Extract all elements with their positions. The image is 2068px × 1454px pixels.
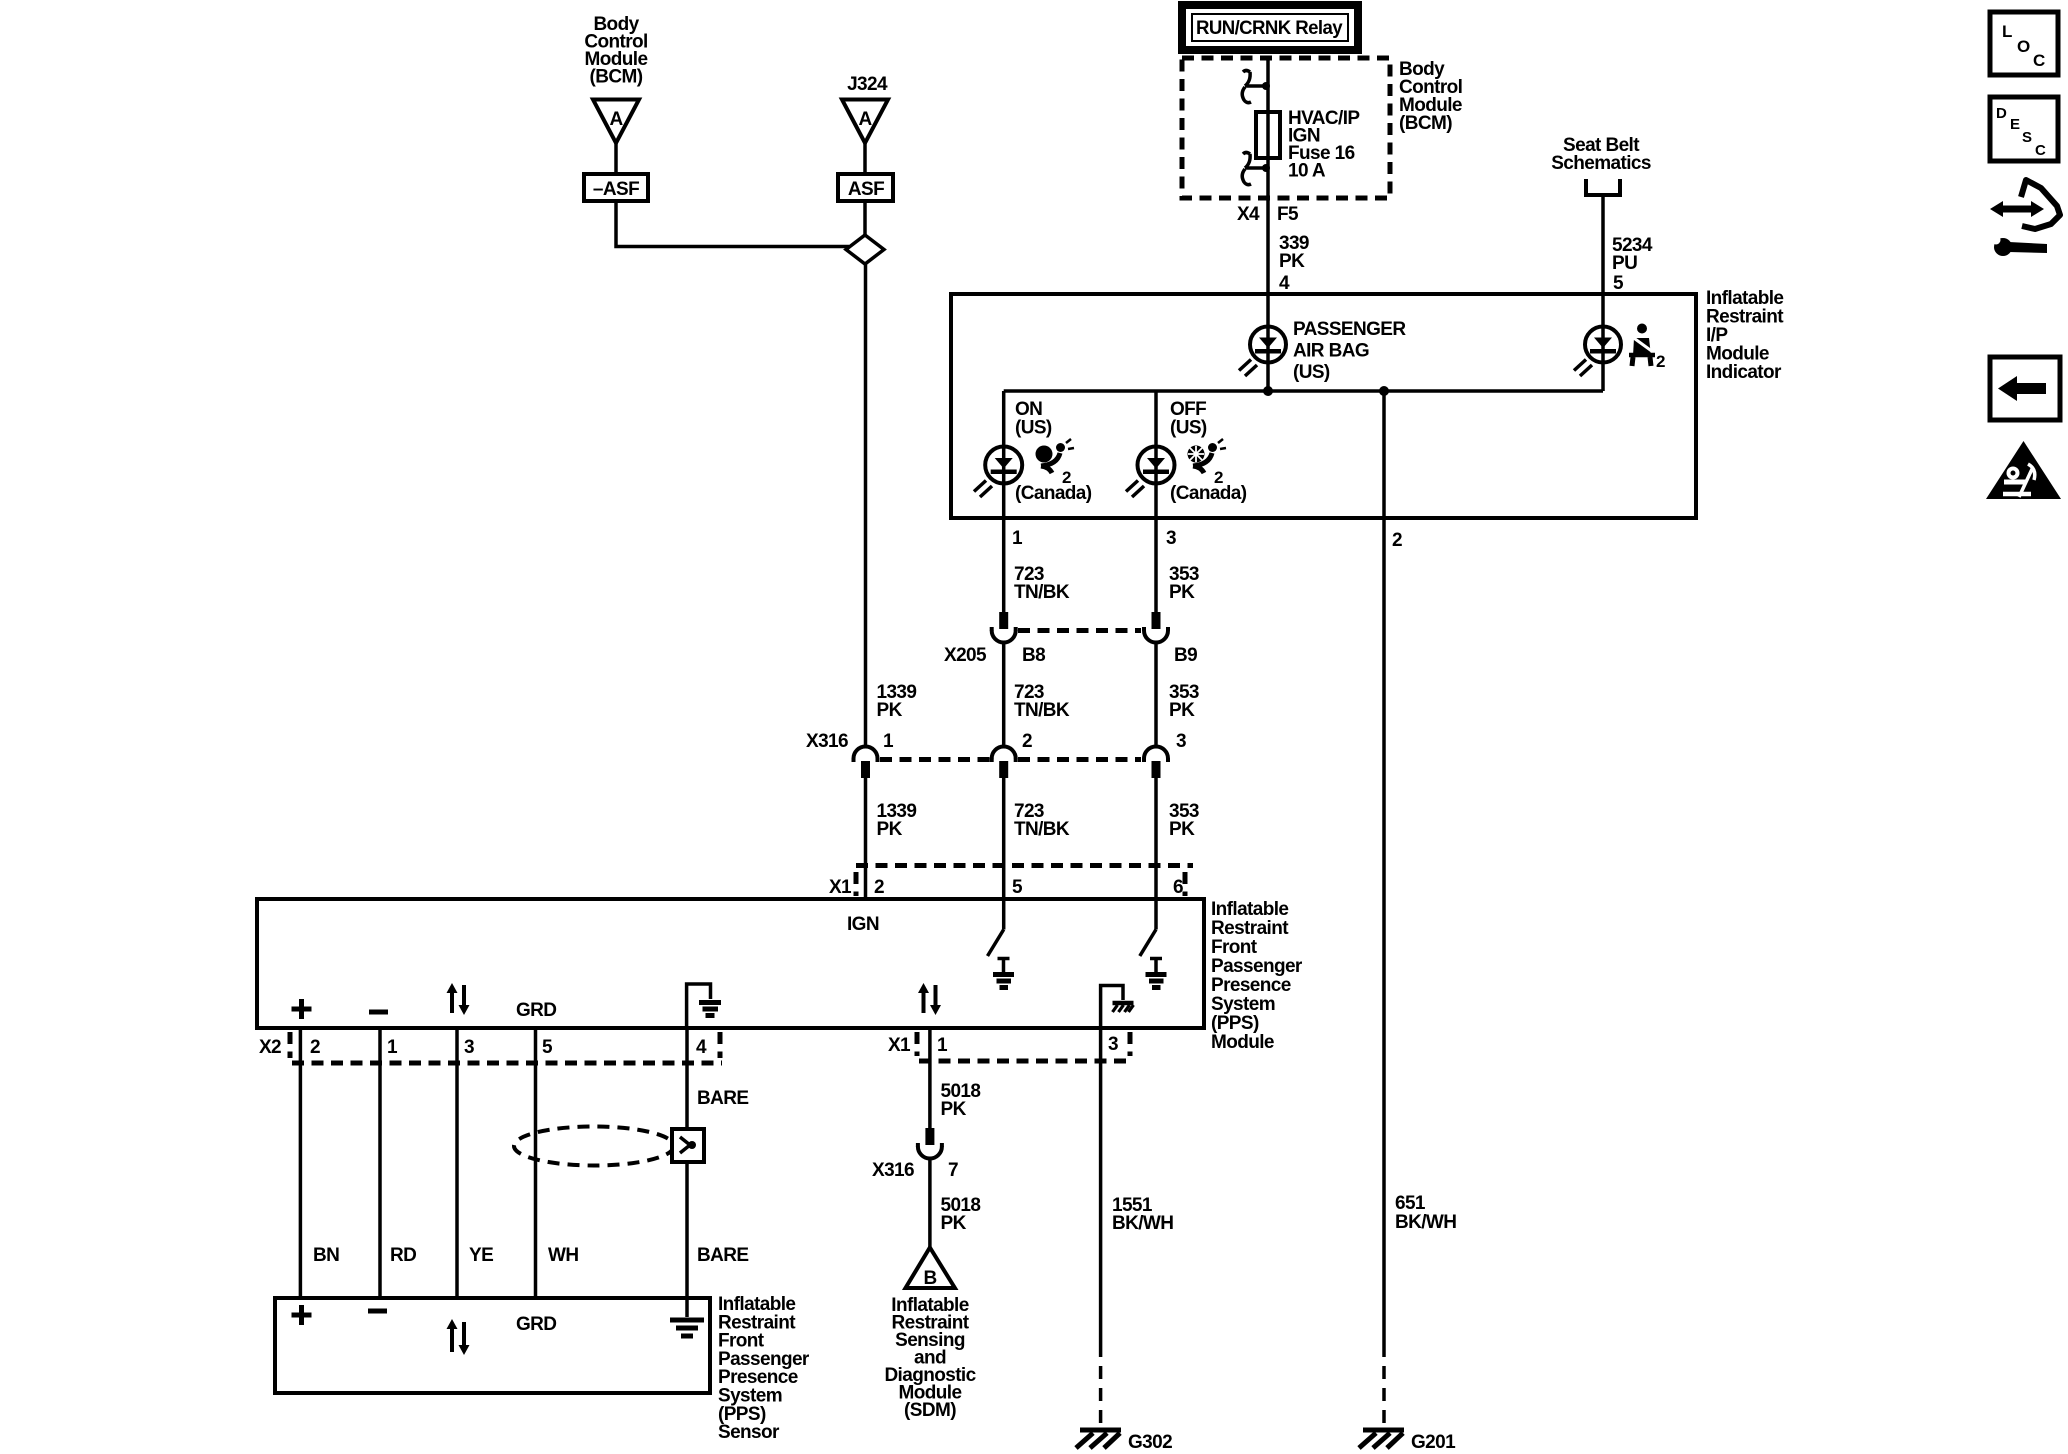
box Inflatable Restraint I/P Module Indicator bbox=[951, 294, 1696, 518]
wire below fuse bbox=[1266, 158, 1270, 294]
minus terminal internal bbox=[369, 1010, 388, 1015]
label Inflatable Restraint I/P Module Indicator bbox=[1706, 288, 1784, 383]
svg-text:(US): (US) bbox=[1170, 418, 1207, 439]
svg-text:BN: BN bbox=[313, 1245, 339, 1266]
svg-text:(BCM): (BCM) bbox=[590, 67, 643, 88]
wire J324 leg down to X316-1 bbox=[864, 264, 868, 746]
svg-text:A: A bbox=[858, 109, 872, 130]
svg-text:GRD: GRD bbox=[516, 1314, 556, 1335]
connector triangle A (J324) bbox=[842, 100, 888, 144]
svg-text:F5: F5 bbox=[1277, 204, 1299, 225]
label 723 TN/BK (upper) bbox=[1014, 564, 1070, 603]
svg-text:7: 7 bbox=[948, 1160, 958, 1181]
dashed link X205 bbox=[1018, 628, 1141, 633]
plus terminal sensor bbox=[292, 1305, 312, 1325]
dashed box BCM bbox=[1182, 58, 1390, 198]
label 339 PK bbox=[1279, 233, 1309, 272]
svg-text:X316: X316 bbox=[872, 1160, 914, 1181]
svg-text:Module: Module bbox=[1211, 1032, 1274, 1053]
wire X1-1 to X316-7 bbox=[928, 1028, 932, 1129]
lamp seat belt indicator bbox=[1574, 327, 1621, 377]
svg-text:10 A: 10 A bbox=[1288, 161, 1326, 182]
wire X2-4 BARE bbox=[685, 1028, 689, 1298]
connector X316-3 bbox=[1144, 747, 1168, 779]
svg-text:TN/BK: TN/BK bbox=[1014, 582, 1070, 603]
svg-text:(Canada): (Canada) bbox=[1170, 483, 1247, 504]
svg-text:TN/BK: TN/BK bbox=[1014, 700, 1070, 721]
connector X316-1 bbox=[854, 747, 878, 779]
svg-text:1: 1 bbox=[387, 1037, 398, 1058]
label 5234 PU bbox=[1612, 235, 1653, 274]
svg-text:BARE: BARE bbox=[697, 1245, 748, 1266]
icon seat belt with subscript 2 bbox=[1629, 324, 1665, 372]
svg-text:PASSENGER: PASSENGER bbox=[1293, 319, 1406, 340]
svg-text:S: S bbox=[2022, 129, 2032, 146]
label Seat Belt Schematics bbox=[1551, 135, 1651, 174]
svg-text:X2: X2 bbox=[259, 1037, 281, 1058]
junction dot bbox=[1263, 386, 1273, 396]
updown arrows internal (X1-1) bbox=[918, 983, 941, 1015]
dashed link X316 1-2 bbox=[880, 757, 990, 762]
connector X316-2 bbox=[992, 747, 1016, 779]
svg-text:YE: YE bbox=[469, 1245, 493, 1266]
connector X2 (module bottom) dashed bbox=[290, 1032, 722, 1063]
label Inflatable Restraint Front Passenger Presence System (PPS) Module bbox=[1211, 899, 1303, 1053]
label 5018 PK (upper) bbox=[941, 1081, 981, 1120]
wire X316-2 to module bbox=[1002, 778, 1006, 899]
label PASSENGER AIR BAG (US) bbox=[1293, 319, 1406, 383]
wire 5234 PU bbox=[1601, 195, 1605, 294]
wire X2-2 BN bbox=[299, 1028, 303, 1298]
box Inflatable Restraint Front Passenger Presence System (PPS) Module bbox=[257, 899, 1204, 1028]
svg-text:5: 5 bbox=[1613, 273, 1624, 294]
svg-text:AIR BAG: AIR BAG bbox=[1293, 341, 1369, 362]
svg-text:ASF: ASF bbox=[848, 179, 884, 200]
svg-text:X1: X1 bbox=[829, 877, 852, 898]
svg-text:2: 2 bbox=[1392, 530, 1402, 551]
connector X205 B8 bbox=[992, 612, 1016, 643]
wire relay feed bbox=[1266, 58, 1270, 160]
wire B8 to X316-2 bbox=[1002, 643, 1006, 747]
svg-text:PK: PK bbox=[1169, 819, 1195, 840]
label 353 PK (mid) bbox=[1169, 682, 1199, 721]
dashed link X316 2-3 bbox=[1018, 757, 1141, 762]
splice diamond bbox=[846, 235, 884, 264]
label Body Control Module (BCM) right of dashed box bbox=[1399, 59, 1462, 134]
svg-text:PK: PK bbox=[1169, 700, 1195, 721]
connector triangle B (SDM) bbox=[906, 1248, 955, 1290]
svg-text:Presence: Presence bbox=[1211, 975, 1291, 996]
label 651 BK/WH bbox=[1395, 1193, 1456, 1233]
svg-text:G302: G302 bbox=[1128, 1432, 1172, 1453]
svg-text:BK/WH: BK/WH bbox=[1112, 1213, 1173, 1234]
icon LOC box bbox=[1990, 12, 2058, 75]
wire indicator pin3 leg bbox=[1154, 391, 1158, 613]
node junction line bbox=[1004, 389, 1603, 393]
wire indicator pin2 leg to G201 bbox=[1382, 391, 1386, 1357]
wire bbox=[614, 143, 618, 174]
lamp OFF (US) (Canada) bbox=[1126, 447, 1175, 498]
icon DESC box bbox=[1990, 97, 2058, 161]
lamp ON (US) (Canada) bbox=[974, 447, 1022, 498]
junction dot bbox=[1379, 386, 1389, 396]
icon airbag deployed with subscript 2 bbox=[1036, 439, 1075, 487]
wire X1-3 to G302 bbox=[1099, 1028, 1103, 1357]
label Inflatable Restraint Front Passenger Presence System (PPS) Sensor bbox=[718, 1294, 810, 1443]
updown arrows sensor bbox=[447, 1319, 470, 1355]
svg-text:WH: WH bbox=[548, 1245, 578, 1266]
off-page connector bracket bbox=[1586, 179, 1620, 195]
label 5018 PK (lower) bbox=[941, 1195, 981, 1234]
svg-text:Inflatable: Inflatable bbox=[1211, 899, 1288, 920]
svg-text:5: 5 bbox=[542, 1037, 553, 1058]
label 723 TN/BK (lower) bbox=[1014, 801, 1070, 840]
ground G201 bbox=[1359, 1430, 1456, 1453]
svg-text:Front: Front bbox=[1211, 937, 1258, 958]
svg-text:(Canada): (Canada) bbox=[1015, 483, 1092, 504]
wire X316-1 to module bbox=[864, 778, 868, 899]
svg-text:(US): (US) bbox=[1293, 362, 1330, 383]
box ASF bbox=[838, 174, 893, 201]
svg-text:E: E bbox=[2010, 116, 2020, 133]
svg-text:GRD: GRD bbox=[516, 1000, 556, 1021]
wire X2-3 YE bbox=[455, 1028, 459, 1298]
label OFF (US) bbox=[1170, 399, 1207, 439]
svg-text:RUN/CRNK Relay: RUN/CRNK Relay bbox=[1196, 18, 1343, 39]
svg-text:X1: X1 bbox=[888, 1035, 911, 1056]
ground internal (pin 5) bbox=[993, 959, 1014, 988]
svg-text:4: 4 bbox=[1279, 273, 1290, 294]
svg-text:D: D bbox=[1996, 105, 2007, 122]
svg-text:L: L bbox=[2002, 22, 2012, 41]
svg-text:PK: PK bbox=[877, 700, 903, 721]
svg-text:2: 2 bbox=[310, 1037, 320, 1058]
svg-text:1: 1 bbox=[1012, 528, 1023, 549]
svg-text:2: 2 bbox=[1656, 352, 1665, 371]
svg-text:3: 3 bbox=[1176, 731, 1186, 752]
connector X316-7 bbox=[918, 1128, 942, 1159]
minus terminal sensor bbox=[368, 1309, 387, 1314]
svg-text:X4: X4 bbox=[1237, 204, 1260, 225]
svg-text:B8: B8 bbox=[1022, 645, 1045, 666]
svg-text:A: A bbox=[609, 109, 623, 130]
svg-text:PK: PK bbox=[1169, 582, 1195, 603]
wire dashed to G302 bbox=[1099, 1366, 1103, 1430]
box -ASF bbox=[584, 174, 648, 201]
label 353 PK (upper) bbox=[1169, 564, 1199, 603]
shield oval bbox=[514, 1127, 674, 1166]
connector X205 B9 bbox=[1144, 612, 1168, 643]
svg-text:Schematics: Schematics bbox=[1551, 153, 1651, 174]
ground internal (pin 6) bbox=[1146, 959, 1167, 988]
svg-text:RD: RD bbox=[390, 1245, 416, 1266]
ground sensor bbox=[670, 1298, 704, 1336]
svg-text:X316: X316 bbox=[806, 731, 848, 752]
fuse HVAC/IP IGN Fuse 16 10 A bbox=[1256, 112, 1280, 158]
svg-text:J324: J324 bbox=[847, 74, 888, 95]
svg-text:PK: PK bbox=[877, 819, 903, 840]
svg-text:System: System bbox=[1211, 994, 1275, 1015]
label Body Control Module (BCM) bbox=[584, 14, 647, 88]
wire X2-1 RD bbox=[378, 1028, 382, 1298]
svg-text:5: 5 bbox=[1012, 877, 1023, 898]
wire bbox=[616, 201, 849, 247]
svg-text:PK: PK bbox=[1279, 251, 1305, 272]
icon airbag crossed with subscript 2 bbox=[1188, 439, 1227, 487]
box RUN/CRNK Relay bbox=[1182, 5, 1358, 50]
box Inflatable Restraint Front Passenger Presence System (PPS) Sensor bbox=[275, 1298, 710, 1393]
label X4 F5 bbox=[1237, 204, 1299, 225]
svg-text:Restraint: Restraint bbox=[1211, 918, 1289, 939]
label 1339 PK (lower) bbox=[877, 801, 917, 840]
svg-text:C: C bbox=[2033, 51, 2045, 70]
svg-text:O: O bbox=[2017, 37, 2030, 56]
icon schematic navigation arrow-wrench bbox=[1990, 180, 2060, 256]
relay terminal upper bbox=[1242, 71, 1270, 103]
wire X2-5 WH bbox=[534, 1028, 538, 1298]
svg-text:(SDM): (SDM) bbox=[904, 1400, 956, 1421]
label ON (US) bbox=[1015, 399, 1052, 439]
svg-text:(BCM): (BCM) bbox=[1399, 113, 1452, 134]
label Inflatable Restraint Sensing and Diagnostic Module (SDM) bbox=[884, 1295, 976, 1421]
svg-text:BK/WH: BK/WH bbox=[1395, 1212, 1456, 1233]
svg-text:2: 2 bbox=[1022, 731, 1032, 752]
svg-text:Passenger: Passenger bbox=[1211, 956, 1303, 977]
lamp PASSENGER AIR BAG (US) bbox=[1239, 327, 1286, 377]
svg-text:6: 6 bbox=[1173, 877, 1183, 898]
plus terminal internal bbox=[292, 999, 312, 1019]
updown arrows internal (X2-3) bbox=[447, 983, 470, 1015]
relay terminal lower bbox=[1242, 153, 1270, 185]
label 723 TN/BK (mid) bbox=[1014, 682, 1070, 721]
svg-text:651: 651 bbox=[1395, 1193, 1426, 1214]
svg-text:3: 3 bbox=[464, 1037, 474, 1058]
wire X316-7 to SDM bbox=[928, 1159, 932, 1250]
svg-text:–ASF: –ASF bbox=[593, 179, 639, 200]
svg-text:3: 3 bbox=[1108, 1034, 1118, 1055]
svg-text:B: B bbox=[923, 1268, 936, 1289]
wire dashed to G201 bbox=[1382, 1366, 1386, 1430]
chassis ground internal (X1-3) bbox=[1101, 986, 1134, 1029]
switch internal (pin 6) bbox=[1140, 899, 1156, 956]
wire bbox=[863, 201, 867, 236]
svg-text:C: C bbox=[2035, 142, 2046, 159]
svg-text:Indicator: Indicator bbox=[1706, 362, 1782, 383]
svg-text:2: 2 bbox=[874, 877, 884, 898]
svg-text:Sensor: Sensor bbox=[718, 1422, 780, 1443]
switch internal (pin 5) bbox=[988, 899, 1004, 956]
ground internal (X2-4) bbox=[687, 984, 721, 1028]
icon airbag warning triangle bbox=[1986, 441, 2061, 499]
label 353 PK (lower) bbox=[1169, 801, 1199, 840]
svg-text:3: 3 bbox=[1166, 528, 1176, 549]
svg-text:(US): (US) bbox=[1015, 418, 1052, 439]
wire X316-3 to module bbox=[1154, 778, 1158, 899]
connector triangle A (to BCM) bbox=[593, 100, 639, 144]
label 1551 BK/WH bbox=[1112, 1195, 1173, 1234]
icon back arrow box bbox=[1990, 357, 2060, 420]
svg-text:G201: G201 bbox=[1411, 1432, 1456, 1453]
svg-text:1: 1 bbox=[937, 1035, 948, 1056]
label 1339 PK (mid) bbox=[877, 682, 917, 721]
svg-text:4: 4 bbox=[696, 1037, 707, 1058]
svg-text:B9: B9 bbox=[1174, 645, 1197, 666]
connector X1 (module bottom) dashed bbox=[917, 1032, 1133, 1061]
svg-text:IGN: IGN bbox=[847, 914, 879, 935]
connector X1 (module top) dashed bbox=[856, 866, 1193, 897]
svg-text:(PPS): (PPS) bbox=[1211, 1013, 1259, 1034]
wire B9 to X316-3 bbox=[1154, 643, 1158, 747]
svg-text:BARE: BARE bbox=[697, 1088, 748, 1109]
ground G302 bbox=[1076, 1430, 1172, 1453]
svg-text:PU: PU bbox=[1612, 253, 1637, 274]
wire bbox=[863, 143, 867, 174]
svg-text:TN/BK: TN/BK bbox=[1014, 819, 1070, 840]
wire lamp feeds bbox=[1266, 294, 1270, 391]
svg-text:PK: PK bbox=[941, 1213, 967, 1234]
wire indicator pin1 leg bbox=[1002, 391, 1006, 613]
svg-text:X205: X205 bbox=[944, 645, 987, 666]
shield termination box bbox=[672, 1129, 704, 1162]
svg-text:1: 1 bbox=[883, 731, 894, 752]
svg-text:PK: PK bbox=[941, 1099, 967, 1120]
